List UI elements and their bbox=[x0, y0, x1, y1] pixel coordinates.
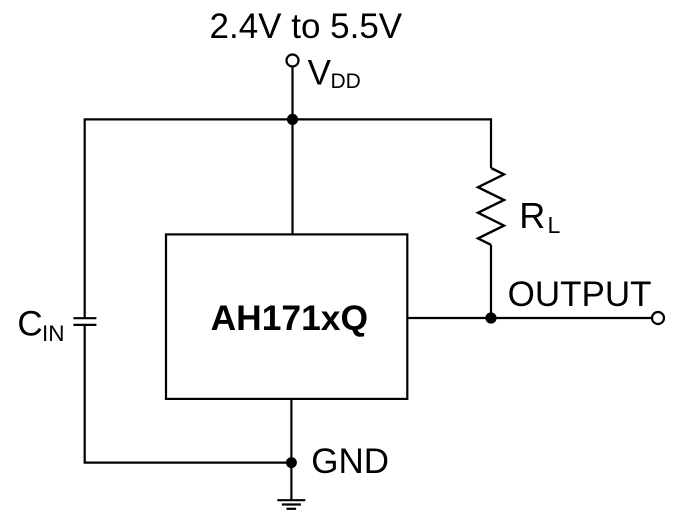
svg-text:2.4V to 5.5V: 2.4V to 5.5V bbox=[210, 7, 403, 46]
ground symbol bbox=[277, 500, 305, 509]
svg-text:AH171xQ: AH171xQ bbox=[211, 298, 368, 338]
wire IC bottom pin to ground symbol bbox=[290, 399, 292, 500]
svg-text:OUTPUT: OUTPUT bbox=[508, 275, 652, 314]
svg-text:DD: DD bbox=[331, 70, 361, 93]
junction VDD node bbox=[287, 114, 298, 125]
wire top rail and left branch down to capacitor top plate bbox=[85, 119, 491, 318]
node OUTPUT label bbox=[508, 275, 652, 314]
svg-text:IN: IN bbox=[42, 321, 65, 346]
svg-text:V: V bbox=[308, 54, 332, 93]
resistor RL label bbox=[519, 195, 560, 238]
terminal VDD (open circle) bbox=[287, 55, 299, 67]
capacitor C_IN label bbox=[17, 305, 64, 346]
node GND label bbox=[311, 442, 389, 481]
svg-text:R: R bbox=[519, 195, 545, 236]
resistor RL zigzag bbox=[478, 168, 504, 245]
node VDD label bbox=[308, 54, 361, 94]
wire capacitor bottom plate down and along bottom to GND node bbox=[85, 325, 292, 463]
svg-text:L: L bbox=[548, 212, 561, 238]
wire VDD terminal to IC top pin bbox=[291, 68, 293, 236]
junction GND node bbox=[286, 457, 297, 468]
supply voltage value label 2.4V to 5.5V bbox=[210, 7, 403, 46]
wire top rail down to resistor RL top bbox=[490, 118, 492, 168]
capacitor C_IN plates bbox=[73, 318, 96, 325]
IC U1 AH171xQ body bbox=[166, 234, 407, 399]
svg-text:GND: GND bbox=[311, 442, 389, 481]
IC U1 AH171xQ label bbox=[211, 298, 368, 338]
svg-text:C: C bbox=[17, 305, 42, 344]
terminal OUTPUT (open circle) bbox=[652, 312, 664, 324]
wire resistor RL bottom to OUTPUT node bbox=[490, 245, 492, 318]
junction OUTPUT node bbox=[485, 312, 496, 323]
wire IC output pin to OUTPUT terminal bbox=[407, 317, 651, 319]
